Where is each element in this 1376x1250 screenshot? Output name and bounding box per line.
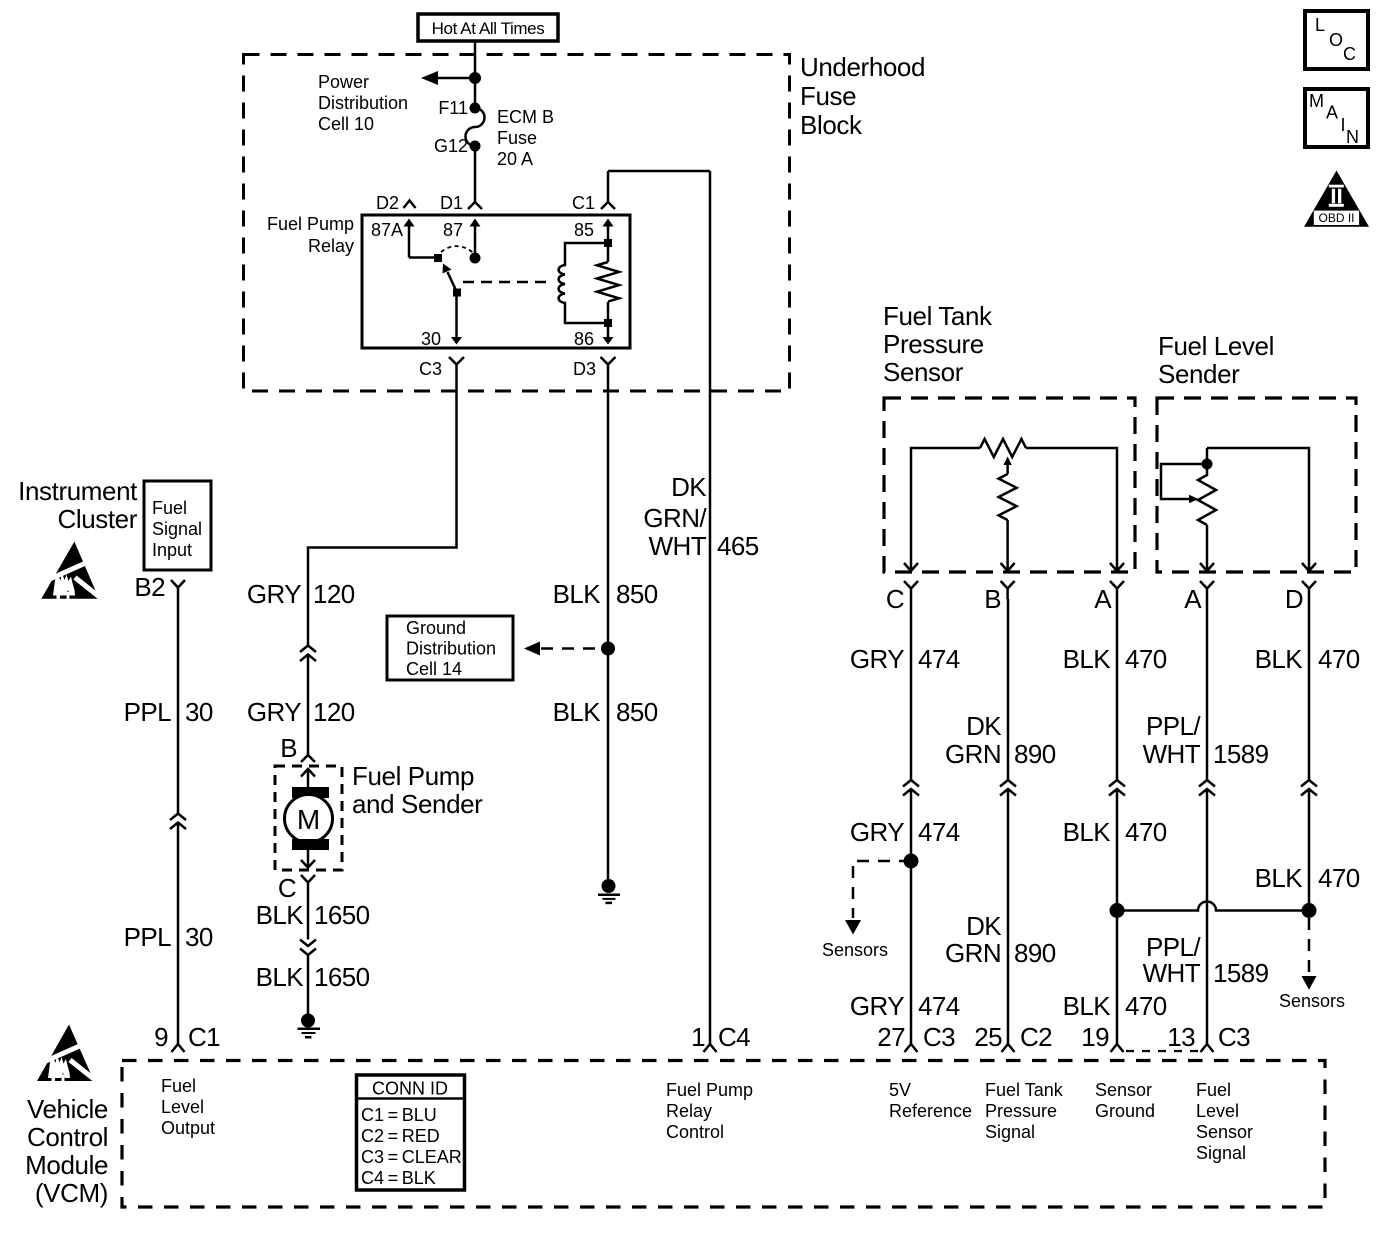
connector C (FTP) <box>904 581 918 599</box>
svg-text:Ground: Ground <box>406 618 466 638</box>
svg-text:890: 890 <box>1014 739 1056 769</box>
FTP sensor wiper resistor <box>999 474 1017 520</box>
svg-text:474: 474 <box>918 817 960 847</box>
CONN ID table <box>357 1075 465 1190</box>
svg-text:Reference: Reference <box>889 1101 972 1121</box>
FTP sensor potentiometer element <box>980 439 1026 457</box>
fuse F11/G12 ECM B Fuse 20 A <box>434 98 554 169</box>
svg-text:Signal: Signal <box>985 1122 1035 1142</box>
svg-text:Signal: Signal <box>1196 1143 1246 1163</box>
wire BLK 850 from D3 to ground <box>607 375 610 879</box>
svg-text:C4 = BLK: C4 = BLK <box>361 1168 436 1188</box>
wire BLK 470 D lower to junction <box>1308 789 1311 911</box>
fuel pump and sender dashed box <box>275 766 342 870</box>
svg-text:Fuel Pump: Fuel Pump <box>666 1080 753 1100</box>
svg-text:DK: DK <box>966 711 1002 741</box>
svg-text:BLK: BLK <box>256 962 305 992</box>
svg-text:Cell 14: Cell 14 <box>406 659 462 679</box>
connector 9 C1 fork <box>172 1044 185 1052</box>
fuel level sender dashed box <box>1157 398 1356 572</box>
svg-text:5V: 5V <box>889 1080 911 1100</box>
connector A (FTP) <box>1110 581 1124 599</box>
ESD sensitivity symbol (instrument cluster) <box>41 542 102 599</box>
connector 25 C2 fork <box>1002 1044 1015 1052</box>
svg-text:Cluster: Cluster <box>57 504 137 534</box>
FLS internal arrow A <box>1200 563 1214 571</box>
wire PPL/WHT 1589 lower <box>1206 789 1209 1044</box>
svg-text:ECM B: ECM B <box>497 107 554 127</box>
FTP sensor internal: ground side wire <box>1026 448 1117 563</box>
svg-text:GRY: GRY <box>850 817 904 847</box>
svg-text:G12: G12 <box>434 136 468 156</box>
wire GRY 120 lower to fuel pump <box>307 655 310 756</box>
node square dot coil top <box>604 239 612 247</box>
svg-text:474: 474 <box>918 644 960 674</box>
break chevrons BLK 470 <box>1109 780 1125 787</box>
wire BLK 470 upper (pin A FTP) <box>1116 599 1119 780</box>
svg-text:Distribution: Distribution <box>406 639 496 659</box>
FLS internal arrow D <box>1302 563 1316 571</box>
svg-text:86: 86 <box>574 329 594 349</box>
svg-text:(VCM): (VCM) <box>35 1178 108 1208</box>
svg-text:Signal: Signal <box>152 519 202 539</box>
FLS node junction dot <box>1202 459 1213 470</box>
svg-text:1: 1 <box>691 1022 705 1052</box>
svg-text:30: 30 <box>185 697 213 727</box>
FLS signal wire <box>1206 525 1209 563</box>
svg-text:Fuse: Fuse <box>497 128 537 148</box>
FTP sensor signal wire <box>1006 520 1009 563</box>
break chevrons on GRY 120 wire <box>300 646 316 653</box>
svg-text:Fuel Pump: Fuel Pump <box>267 214 354 234</box>
connector D2 chevron <box>404 201 416 209</box>
svg-text:470: 470 <box>1125 991 1167 1021</box>
connector 19 fork <box>1111 1044 1124 1052</box>
wire PPL 30 lower <box>177 823 180 1045</box>
svg-text:C3: C3 <box>923 1022 955 1052</box>
connector D3 <box>601 357 616 375</box>
svg-text:PPL: PPL <box>124 922 171 952</box>
svg-text:N: N <box>1346 127 1359 147</box>
svg-text:Module: Module <box>25 1150 108 1180</box>
ground symbol G104 <box>298 1014 321 1038</box>
break chevrons on BLK 1650 wire (down) <box>300 940 316 947</box>
svg-text:Sensors: Sensors <box>1279 991 1345 1011</box>
svg-text:D1: D1 <box>440 193 463 213</box>
node square dot coil bottom <box>604 319 612 327</box>
svg-text:Sensor: Sensor <box>1196 1122 1253 1142</box>
svg-text:Fuel: Fuel <box>161 1076 196 1096</box>
ESD sensitivity symbol (VCM) <box>37 1025 97 1082</box>
svg-text:BLK: BLK <box>1255 644 1304 674</box>
svg-text:Hot At All Times: Hot At All Times <box>432 19 545 38</box>
svg-text:27: 27 <box>877 1022 905 1052</box>
FLS wiper loop with arrow <box>1161 464 1207 503</box>
connector 13 C3 fork <box>1201 1044 1214 1052</box>
svg-text:Relay: Relay <box>666 1101 712 1121</box>
break chevrons on PPL 30 wire <box>170 814 186 821</box>
svg-text:C1 = BLU: C1 = BLU <box>361 1105 437 1125</box>
break chevrons GRY 474 <box>903 780 919 787</box>
svg-text:470: 470 <box>1125 817 1167 847</box>
svg-text:Block: Block <box>800 110 863 140</box>
svg-text:87A: 87A <box>371 220 403 240</box>
svg-text:D2: D2 <box>376 193 399 213</box>
relay coil <box>559 243 608 323</box>
svg-text:and Sender: and Sender <box>352 789 483 819</box>
svg-text:BLK: BLK <box>1255 863 1304 893</box>
wire arrow to Power Distribution Cell 10 <box>436 77 475 80</box>
svg-text:C3: C3 <box>1218 1022 1250 1052</box>
svg-text:120: 120 <box>313 579 355 609</box>
svg-text:BLK: BLK <box>256 900 305 930</box>
relay switch throw dashed arc <box>441 246 473 252</box>
relay actuation dashed line <box>463 281 552 284</box>
svg-text:D: D <box>1285 584 1303 614</box>
svg-text:Fuel Level: Fuel Level <box>1158 331 1274 361</box>
svg-text:20 A: 20 A <box>497 149 533 169</box>
connector B2 <box>171 580 185 598</box>
relay pin 87 arrow and label <box>443 219 481 264</box>
relay pin 85 arrow and label <box>574 219 614 263</box>
svg-text:Sender: Sender <box>1158 359 1240 389</box>
svg-text:Fuel Tank: Fuel Tank <box>883 301 993 331</box>
svg-text:WHT: WHT <box>1143 958 1201 988</box>
svg-text:CONN ID: CONN ID <box>372 1079 448 1099</box>
svg-text:GRN/: GRN/ <box>643 503 707 533</box>
svg-text:474: 474 <box>918 991 960 1021</box>
node junction dot sensor ground A <box>1110 903 1125 918</box>
wire GRY 474 upper <box>910 599 913 780</box>
wire ground link with hop over PPL/WHT <box>1117 902 1309 911</box>
break chevrons PPL/WHT 1589 <box>1199 780 1215 787</box>
svg-text:BLK: BLK <box>1063 817 1112 847</box>
svg-text:WHT: WHT <box>1143 739 1201 769</box>
relay coil suppression resistor <box>597 262 619 302</box>
svg-text:O: O <box>1329 30 1343 50</box>
connector D1 fork <box>468 202 482 209</box>
svg-text:Level: Level <box>1196 1101 1239 1121</box>
svg-text:GRN: GRN <box>945 938 1001 968</box>
wire BLK 470 (pin D FLS) upper <box>1308 599 1311 780</box>
svg-text:Sensor: Sensor <box>1095 1080 1152 1100</box>
wire from C1 up to horizontal feed <box>607 171 610 202</box>
fuel tank pressure sensor dashed box <box>884 398 1135 572</box>
svg-text:BLK: BLK <box>553 697 602 727</box>
svg-text:87: 87 <box>443 220 463 240</box>
wire DK GRN/WHT 465 vertical run <box>709 171 712 1044</box>
svg-text:Power: Power <box>318 72 369 92</box>
svg-text:Fuel: Fuel <box>152 498 187 518</box>
ground symbol G103 <box>598 879 620 903</box>
connector C (fuel pump) <box>301 875 315 893</box>
svg-text:Relay: Relay <box>308 236 354 256</box>
relay pin 86 arrow and label <box>574 302 614 349</box>
FTP sensor internal arrow C <box>904 563 918 571</box>
svg-text:A: A <box>1094 584 1112 614</box>
svg-text:C1: C1 <box>572 193 595 213</box>
svg-text:M: M <box>297 804 320 835</box>
svg-text:C3 = CLEAR: C3 = CLEAR <box>361 1147 462 1167</box>
underhood fuse block dashed box <box>244 55 790 392</box>
dashed wire to sensors (left) with arrow <box>845 861 911 935</box>
svg-text:30: 30 <box>421 329 441 349</box>
relay K1 fuel pump relay box <box>362 215 630 348</box>
svg-text:GRY: GRY <box>850 991 904 1021</box>
wire BLK 470 lower <box>1116 789 1119 1044</box>
svg-text:C: C <box>1343 44 1356 64</box>
svg-text:Instrument: Instrument <box>18 476 138 506</box>
svg-text:DK: DK <box>966 911 1002 941</box>
legend LOC box <box>1305 11 1368 69</box>
fuel pump motor M1 <box>285 769 333 868</box>
svg-text:GRY: GRY <box>247 579 301 609</box>
FTP sensor internal: 5V side wire <box>911 448 980 563</box>
svg-text:9: 9 <box>154 1022 168 1052</box>
svg-text:1589: 1589 <box>1213 958 1269 988</box>
wire horizontal feed to circuit 465 <box>608 170 710 173</box>
svg-text:M: M <box>1309 91 1324 111</box>
svg-text:C3: C3 <box>419 359 442 379</box>
svg-text:Vehicle: Vehicle <box>27 1094 108 1124</box>
node junction dot GRY 474 <box>904 854 919 869</box>
svg-text:GRY: GRY <box>247 697 301 727</box>
svg-text:1650: 1650 <box>314 962 370 992</box>
svg-text:BLK: BLK <box>1063 644 1112 674</box>
svg-text:C2 = RED: C2 = RED <box>361 1126 440 1146</box>
svg-text:OBD II: OBD II <box>1318 211 1354 225</box>
svg-text:25: 25 <box>974 1022 1002 1052</box>
svg-text:Fuel Tank: Fuel Tank <box>985 1080 1064 1100</box>
svg-text:470: 470 <box>1125 644 1167 674</box>
svg-text:Output: Output <box>161 1118 215 1138</box>
wire GRY 474 lower <box>910 789 913 1044</box>
svg-text:Sensors: Sensors <box>822 940 888 960</box>
svg-text:PPL: PPL <box>124 697 171 727</box>
wire DK GRN 890 upper <box>1007 599 1010 780</box>
relay pin 87A arrow and label <box>371 219 442 263</box>
FTP sensor internal arrow B <box>1001 563 1015 571</box>
svg-text:C4: C4 <box>718 1022 750 1052</box>
svg-text:85: 85 <box>574 220 594 240</box>
svg-text:Control: Control <box>666 1122 724 1142</box>
ground distribution cell 14 box <box>387 616 513 680</box>
VCM dashed box <box>122 1061 1325 1208</box>
wire BLK 1650 lower <box>307 955 310 1014</box>
svg-text:13: 13 <box>1167 1022 1195 1052</box>
FTP sensor internal arrow A <box>1110 563 1124 571</box>
svg-text:B: B <box>280 733 297 763</box>
svg-text:30: 30 <box>185 922 213 952</box>
svg-text:465: 465 <box>717 531 759 561</box>
wire from Hot At All Times to fuse F11 <box>474 41 477 108</box>
svg-text:120: 120 <box>313 697 355 727</box>
svg-text:890: 890 <box>1014 938 1056 968</box>
svg-text:GRN: GRN <box>945 739 1001 769</box>
svg-text:I: I <box>1341 115 1346 135</box>
connector D (FLS) <box>1302 581 1316 599</box>
connector 27 C3 fork <box>905 1044 918 1052</box>
svg-text:F11: F11 <box>438 98 468 118</box>
svg-text:A: A <box>1326 103 1338 123</box>
wire BLK 1650 upper <box>307 893 310 940</box>
svg-text:Ground: Ground <box>1095 1101 1155 1121</box>
svg-text:Level: Level <box>161 1097 204 1117</box>
svg-text:Control: Control <box>27 1122 108 1152</box>
break chevrons DK GRN 890 <box>1000 780 1016 787</box>
node junction dot at power feed <box>469 72 481 84</box>
dashed wire to ground distribution with arrow <box>524 642 601 656</box>
legend MAIN box <box>1305 89 1368 147</box>
svg-text:Distribution: Distribution <box>318 93 408 113</box>
wire DK GRN 890 lower <box>1007 789 1010 1044</box>
dashed wire to sensors (right) with arrow <box>1302 918 1317 990</box>
svg-text:470: 470 <box>1318 644 1360 674</box>
FLS internal: top wire <box>1207 448 1309 563</box>
node junction dot BLK 850 <box>601 642 615 656</box>
fuel signal input box <box>144 481 211 570</box>
connector 1 C4 fork <box>704 1044 717 1052</box>
svg-text:C: C <box>278 873 296 903</box>
svg-text:Input: Input <box>152 540 192 560</box>
svg-text:Pressure: Pressure <box>883 329 984 359</box>
svg-text:A: A <box>1184 584 1202 614</box>
connector C3 <box>449 357 464 375</box>
svg-text:B2: B2 <box>134 572 165 602</box>
svg-text:19: 19 <box>1081 1022 1109 1052</box>
svg-text:PPL/: PPL/ <box>1146 711 1201 741</box>
relay switch blade with arrow <box>443 264 462 297</box>
legend OBD II symbol <box>1304 171 1369 227</box>
svg-text:Underhood: Underhood <box>800 52 925 82</box>
svg-text:1650: 1650 <box>314 900 370 930</box>
svg-text:D3: D3 <box>573 359 596 379</box>
connector C1 fork <box>601 202 615 209</box>
svg-text:850: 850 <box>616 579 658 609</box>
connector B fork (fuel pump) <box>301 755 315 762</box>
break chevrons BLK 470 D <box>1301 780 1317 787</box>
svg-text:WHT: WHT <box>649 531 707 561</box>
svg-text:Fuel: Fuel <box>1196 1080 1231 1100</box>
svg-text:BLK: BLK <box>1063 991 1112 1021</box>
svg-text:Fuel Pump: Fuel Pump <box>352 761 474 791</box>
svg-text:Sensor: Sensor <box>883 357 964 387</box>
connector B (FTP) <box>1001 581 1015 599</box>
svg-text:C2: C2 <box>1020 1022 1052 1052</box>
svg-text:Pressure: Pressure <box>985 1101 1057 1121</box>
svg-text:470: 470 <box>1318 863 1360 893</box>
svg-text:L: L <box>1315 15 1325 35</box>
wire PPL/WHT 1589 upper <box>1206 599 1209 780</box>
svg-text:Fuse: Fuse <box>800 81 856 111</box>
node junction dot sensor ground D <box>1302 903 1317 918</box>
FTP sensor wiper arrow <box>1003 457 1011 475</box>
dashed link between pins 19 and 13 <box>1126 1050 1199 1052</box>
svg-text:1589: 1589 <box>1213 739 1269 769</box>
wire PPL 30 upper <box>177 598 180 814</box>
power feed box "Hot At All Times" <box>418 14 558 41</box>
FLS variable resistor <box>1198 448 1216 525</box>
svg-text:850: 850 <box>616 697 658 727</box>
wire C3 to GRY 120 jog <box>308 375 457 646</box>
svg-text:GRY: GRY <box>850 644 904 674</box>
wire from fuse to relay pin D1 <box>474 146 477 202</box>
svg-text:B: B <box>984 584 1001 614</box>
svg-text:Cell 10: Cell 10 <box>318 114 374 134</box>
svg-text:C1: C1 <box>188 1022 220 1052</box>
relay pin 30 wire and arrow <box>421 293 462 350</box>
svg-text:DK: DK <box>671 472 707 502</box>
svg-text:BLK: BLK <box>553 579 602 609</box>
svg-text:C: C <box>886 584 904 614</box>
connector A (FLS) <box>1200 581 1214 599</box>
